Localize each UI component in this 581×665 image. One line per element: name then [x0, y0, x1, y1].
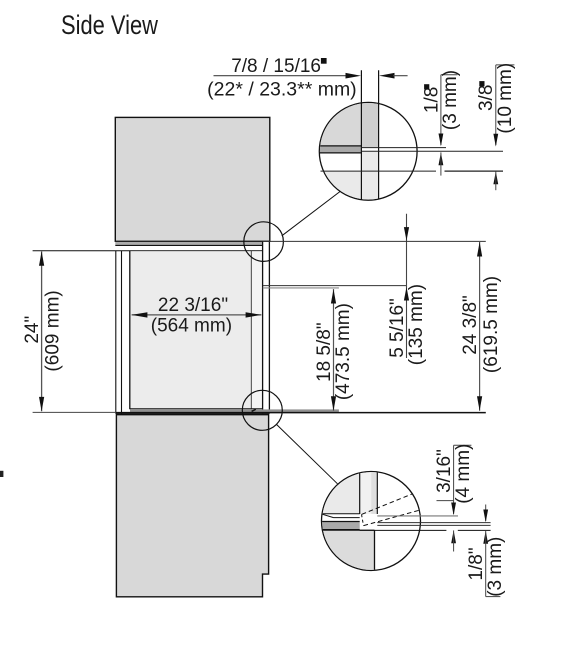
detail: panel quadrant	[319, 101, 361, 146]
extension line 5 5/16	[263, 285, 407, 287]
small circle at top front corner	[244, 222, 284, 262]
arrowhead right	[346, 73, 362, 79]
detail: dashed door tilt line 2	[364, 510, 420, 525]
trim bar below top panel	[115, 242, 262, 245]
arrowhead up	[493, 171, 498, 184]
svg-text:(22* / 23.3** mm): (22* / 23.3** mm)	[207, 79, 357, 100]
svg-text:(609 mm): (609 mm)	[43, 290, 64, 371]
arrowhead up	[331, 289, 336, 304]
dim line 7/8-15/16	[214, 75, 347, 77]
detail: wedge top line	[321, 513, 360, 515]
arrowhead down	[493, 134, 498, 147]
cavity floor gray band	[130, 409, 339, 412]
cavity top line	[33, 250, 263, 252]
leader to bottom detail circle	[277, 425, 338, 484]
end tick	[454, 444, 472, 446]
bottom panel thick top edge	[116, 413, 269, 415]
detail: door strip	[360, 471, 378, 514]
detail line C right segment	[445, 170, 504, 172]
top cabinet panel	[115, 117, 269, 241]
arrowhead up	[483, 531, 488, 544]
cavity floor top line	[130, 408, 262, 410]
dim line 1/8 bottom	[485, 505, 487, 522]
svg-text:7/8 / 15/16: 7/8 / 15/16	[231, 56, 321, 77]
detail: wedge diagonal	[321, 514, 334, 518]
detail: panel front edge	[374, 530, 376, 570]
detail line C	[321, 170, 437, 172]
door strip white	[263, 242, 269, 413]
arrowhead up	[477, 242, 482, 257]
detail: door strip upper	[361, 101, 378, 148]
detail line D (two segments with break)	[360, 529, 447, 531]
arrowhead down	[331, 396, 336, 411]
cavity inner recess line	[250, 251, 252, 409]
svg-text:18 5/8": 18 5/8"	[314, 322, 335, 382]
dim line 3/16	[453, 445, 455, 514]
dim line 18 5/8	[333, 289, 335, 411]
arrowhead up	[439, 152, 444, 165]
end tick	[441, 74, 458, 76]
detail: door strip lower	[361, 152, 378, 201]
svg-text:5 5/16": 5 5/16"	[387, 298, 408, 358]
detail: lower-left light area	[319, 172, 361, 202]
arrowhead down	[451, 503, 456, 516]
bottom reference line (main)	[116, 412, 486, 414]
dim line 24in height	[41, 252, 43, 412]
inch square mark	[424, 84, 429, 89]
arrowhead down	[483, 510, 488, 523]
detail door line 2	[378, 70, 380, 199]
detail: wedge lower line	[334, 517, 360, 519]
end tick	[496, 64, 515, 66]
arrowhead left	[379, 73, 395, 79]
door outer line / panel edge	[268, 241, 270, 413]
dim line 5 5/16	[406, 214, 408, 358]
svg-text:(3 mm): (3 mm)	[440, 70, 461, 130]
arrowhead right	[246, 312, 262, 317]
arrowhead down	[404, 227, 409, 241]
detail: door strip dark column	[371, 471, 376, 514]
detail: dark trim bar	[319, 146, 361, 152]
detail: cavity area	[321, 471, 360, 514]
svg-text:(135 mm): (135 mm)	[406, 284, 427, 365]
extension line 18 5/8	[263, 287, 339, 289]
detail: door line 2	[376, 471, 378, 514]
detail gap line A (gray)	[377, 515, 458, 517]
detail: dashed connector	[362, 514, 364, 525]
svg-text:22 3/16": 22 3/16"	[158, 295, 228, 316]
dim line 22 3/16 width	[132, 314, 262, 316]
dim line 1/8 top	[440, 75, 442, 145]
svg-text:(3 mm): (3 mm)	[485, 537, 506, 597]
bottom reference line (left thin part)	[33, 411, 116, 413]
dim line 3/8	[495, 65, 497, 145]
top reference line	[263, 240, 486, 242]
svg-text:(564 mm): (564 mm)	[151, 315, 232, 336]
door front line	[262, 242, 264, 413]
inch square symbol	[321, 58, 327, 64]
svg-text:3/8: 3/8	[476, 85, 497, 111]
arrowhead up	[404, 287, 409, 301]
detail door line 1	[360, 70, 362, 199]
shelf tick in bottom small circle	[252, 409, 256, 411]
arrowhead left	[131, 312, 147, 317]
svg-text:3/16": 3/16"	[434, 449, 455, 493]
inch square mark	[479, 81, 484, 86]
rear wall line A	[115, 251, 117, 414]
end tick	[486, 596, 501, 598]
detail: panel top border	[321, 529, 375, 531]
detail gap line B	[377, 522, 490, 524]
svg-text:24": 24"	[22, 316, 43, 344]
leader to top detail circle	[282, 191, 340, 235]
detail gap line B	[361, 150, 503, 152]
cavity interior fill	[130, 251, 251, 409]
detail: door line 1	[359, 471, 361, 514]
detail: dark shelf bar	[321, 522, 360, 529]
svg-text:1/8": 1/8"	[466, 547, 487, 580]
detail gap line C	[377, 524, 490, 526]
detail gap line A	[361, 147, 446, 149]
text tick	[437, 500, 454, 502]
svg-text:(473.5 mm): (473.5 mm)	[333, 303, 354, 400]
detail: bottom panel area	[321, 530, 375, 571]
rear wall line B	[121, 251, 123, 414]
small circle at bottom front corner	[242, 390, 282, 430]
svg-text:(10 mm): (10 mm)	[495, 63, 516, 134]
arrowhead down	[477, 396, 482, 411]
svg-text:(619.5 mm): (619.5 mm)	[481, 276, 502, 373]
svg-text:(4 mm): (4 mm)	[453, 444, 474, 504]
arrowhead down	[39, 397, 44, 412]
page-edge clipped mark	[0, 471, 3, 477]
cavity left wall	[129, 251, 131, 409]
arrowhead down	[439, 134, 444, 147]
detail: dashed door tilt line 1	[362, 494, 412, 514]
svg-text:Side View: Side View	[61, 10, 159, 40]
bottom cabinet panel	[116, 414, 268, 597]
svg-text:24 3/8": 24 3/8"	[460, 295, 481, 355]
arrowhead up	[39, 251, 44, 265]
arrowhead up	[451, 530, 456, 543]
dim line 24 3/8	[479, 242, 481, 411]
